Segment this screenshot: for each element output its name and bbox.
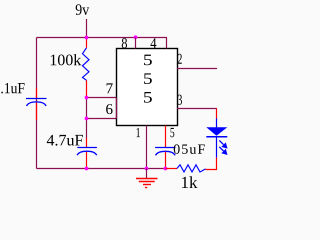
LED D1 cathode bar — [206, 136, 227, 138]
wire: pin 2 lead — [177, 68, 217, 70]
wire: left vertical branch — [36, 38, 38, 169]
wire: pin 6 tap — [87, 118, 117, 120]
label 1k — [182, 176, 198, 188]
wire: pin3 drop to LED — [216, 109, 218, 119]
power label 9v — [76, 4, 90, 15]
resistor 1k body — [177, 165, 206, 172]
pin label 5 — [170, 128, 174, 137]
chip U1 555 body — [117, 49, 178, 126]
resistor 1k right pin — [206, 158, 217, 170]
ground stem — [146, 169, 148, 179]
wire: pin 3 lead — [177, 108, 217, 110]
capacitor .1uF pins — [36, 88, 38, 120]
capacitor 4.7uF pins — [86, 138, 88, 169]
resistor 1k left pin — [166, 168, 178, 170]
wire: pin 8 stub — [135, 38, 137, 49]
LED D1 light arrow 2 — [219, 147, 227, 155]
label .05uF — [174, 144, 205, 153]
ground bars — [136, 179, 158, 188]
junction: pin 1 to ground rail — [145, 167, 149, 171]
junction: pin 7 tap — [85, 96, 89, 100]
wire: bottom ground rail — [37, 168, 166, 170]
wire: pin 4 stub — [166, 38, 168, 49]
pin label 3 — [178, 95, 182, 105]
LED D1 leads — [216, 119, 218, 158]
capacitor .1uF plates — [26, 99, 47, 106]
resistor 100k body — [83, 48, 90, 81]
pin label 4 — [150, 38, 156, 48]
pin label 8 — [122, 38, 127, 48]
junction: 9v / rail / 100k — [85, 36, 89, 40]
capacitor .05uF bottom pin — [165, 152, 167, 169]
junction: 4.7uF to ground rail — [85, 167, 89, 171]
label .1uF — [1, 83, 24, 93]
capacitor 4.7uF plates — [77, 148, 97, 156]
wire: vertical between pin7/pin6 taps — [86, 98, 88, 139]
pin label 2 — [178, 54, 182, 64]
wire: pin 1 stub — [146, 126, 148, 169]
junction: pin5/.05uF/1k on rail — [164, 167, 168, 171]
pin 5 stub (red pin) — [165, 126, 167, 148]
LED D1 triangle — [206, 127, 227, 136]
wire: pin 7 tap — [87, 97, 117, 99]
pin label 7 — [107, 83, 113, 93]
capacitor .05uF plates — [155, 148, 175, 156]
junction: pin 6 tap — [85, 117, 89, 121]
label 4.7uF — [47, 135, 83, 146]
wire: top power rail — [37, 37, 168, 39]
label 100k — [51, 54, 82, 65]
LED D1 light arrow 1 — [219, 140, 227, 148]
wire: pin7-pin6 tie along chip edge — [116, 98, 118, 119]
wire: 9v feed — [86, 19, 88, 38]
pin label 6 — [106, 104, 112, 114]
chip text 555 — [144, 55, 152, 103]
junction: pin8 stub on rail — [134, 35, 138, 39]
pin label 1 — [136, 128, 140, 137]
resistor 100k pins — [86, 38, 88, 98]
